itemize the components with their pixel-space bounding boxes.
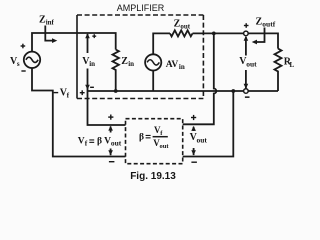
feedback box [126,119,183,164]
resistor RL [275,49,282,91]
resistor Zout [170,30,193,36]
svg-text:in: in [89,60,95,68]
svg-text:s: s [17,60,20,68]
svg-text:AMPLIFIER: AMPLIFIER [117,3,165,13]
beta formula [139,125,169,150]
Zout label [174,18,191,30]
svg-text:in: in [128,60,134,68]
amplifier box [77,15,203,99]
Zin label [121,56,134,68]
tap1 wire to feedback right-top [183,33,217,124]
output top wire and RL top lead [193,33,279,48]
svg-text:out: out [111,138,122,147]
junction Zin-rail [114,89,118,93]
svg-text:out: out [197,135,208,144]
Vs label [10,44,26,72]
svg-text:in: in [179,63,185,71]
Zoutf arrow [252,28,265,45]
Vin label [80,34,96,95]
wire Vs bottom / feedback bottom-left [32,68,126,157]
source Vs [24,52,40,68]
Zinf label [39,15,55,27]
AVin label [166,60,185,71]
right port annotations [191,126,196,155]
bottom rail [88,90,279,92]
RL label [284,57,295,69]
svg-text:AV: AV [166,60,179,70]
svg-text:L: L [290,61,295,69]
Zinf arrow [45,26,57,44]
Vin arrow [85,33,90,90]
Zoutf label [256,17,276,29]
svg-text:V: V [78,136,85,146]
node bottom (open circle) [244,89,249,94]
wire Vin branch down to feedback left port [88,69,126,126]
svg-text:inf: inf [46,19,55,27]
node top (open circle) [244,31,249,36]
source AVin [145,33,170,91]
svg-text:out: out [180,22,190,30]
svg-text:out: out [160,143,170,150]
resistor Zin [113,50,119,92]
tap2 wire to feedback right-bottom [183,91,234,157]
svg-text:outf: outf [262,20,275,29]
svg-text:β: β [97,137,102,147]
svg-text:β: β [139,133,144,143]
svg-text:out: out [246,59,257,68]
left port annotations [108,126,113,156]
minus Vf label [54,87,70,99]
junction tap2 [231,89,235,93]
Vout annotation (output) [244,36,249,89]
svg-text:Fig. 19.13: Fig. 19.13 [130,171,176,182]
junction tap1 [212,32,216,36]
plus output top [244,23,249,28]
wire Vs top to Zin top [32,33,116,52]
